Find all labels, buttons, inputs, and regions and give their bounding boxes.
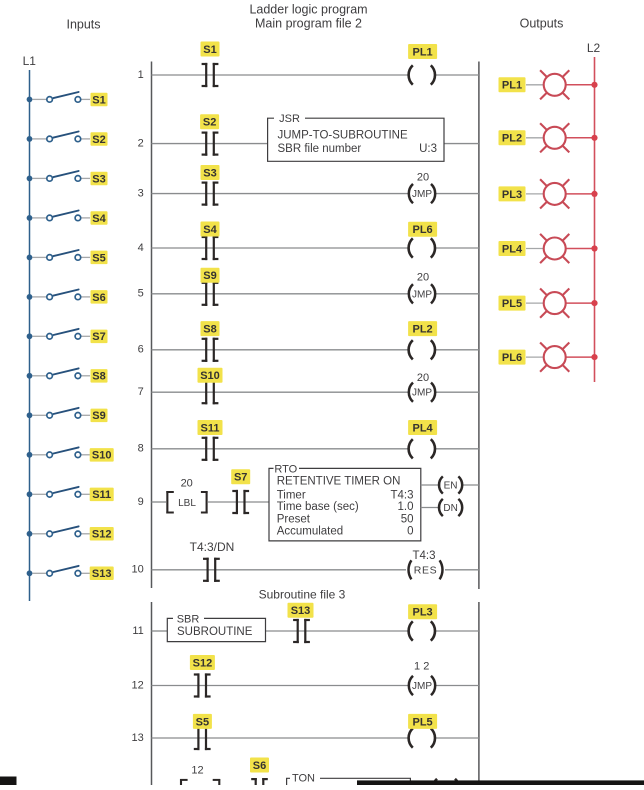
- svg-text:9: 9: [138, 496, 144, 508]
- svg-text:12: 12: [132, 679, 144, 691]
- svg-text:S9: S9: [203, 270, 216, 282]
- svg-text:PL6: PL6: [413, 224, 433, 236]
- svg-text:PL1: PL1: [502, 80, 522, 92]
- svg-text:4: 4: [138, 242, 144, 254]
- svg-text:S5: S5: [92, 252, 105, 264]
- svg-text:1 2: 1 2: [414, 661, 429, 673]
- svg-text:S12: S12: [92, 529, 112, 541]
- svg-text:S13: S13: [291, 605, 311, 617]
- svg-text:TON: TON: [292, 772, 315, 784]
- svg-text:Time base (sec): Time base (sec): [277, 501, 359, 513]
- svg-text:L1: L1: [23, 54, 37, 68]
- svg-text:Outputs: Outputs: [520, 16, 564, 30]
- svg-text:S9: S9: [92, 410, 105, 422]
- svg-text:S3: S3: [203, 167, 216, 179]
- svg-text:7: 7: [138, 386, 144, 398]
- svg-text:20: 20: [417, 171, 429, 183]
- svg-text:T4:3/DN: T4:3/DN: [190, 540, 235, 554]
- svg-text:2: 2: [138, 138, 144, 150]
- svg-text:S5: S5: [196, 716, 209, 728]
- svg-text:SUBROUTINE: SUBROUTINE: [177, 626, 253, 638]
- svg-text:JMP: JMP: [412, 189, 432, 200]
- svg-text:S8: S8: [203, 324, 216, 336]
- svg-text:S4: S4: [203, 224, 217, 236]
- svg-text:8: 8: [138, 443, 144, 455]
- svg-text:PL6: PL6: [502, 352, 522, 364]
- svg-text:JMP: JMP: [412, 388, 432, 399]
- svg-text:Accumulated: Accumulated: [277, 526, 343, 538]
- svg-text:U:3: U:3: [419, 143, 437, 155]
- svg-text:PL2: PL2: [502, 133, 522, 145]
- svg-text:PL3: PL3: [413, 607, 433, 619]
- svg-text:6: 6: [138, 344, 144, 356]
- svg-text:20: 20: [417, 272, 429, 284]
- svg-text:EN: EN: [444, 481, 458, 492]
- svg-text:S10: S10: [92, 450, 112, 462]
- svg-text:JUMP-TO-SUBROUTINE: JUMP-TO-SUBROUTINE: [278, 130, 408, 142]
- svg-text:Inputs: Inputs: [66, 17, 100, 31]
- svg-text:PL1: PL1: [413, 46, 433, 58]
- svg-text:Main program file 2: Main program file 2: [255, 16, 362, 30]
- svg-text:5: 5: [138, 288, 144, 300]
- svg-text:S2: S2: [92, 134, 105, 146]
- svg-text:RETENTIVE TIMER ON: RETENTIVE TIMER ON: [277, 475, 401, 487]
- svg-text:JMP: JMP: [412, 681, 432, 692]
- svg-text:RTO: RTO: [274, 463, 297, 475]
- svg-text:10: 10: [132, 564, 144, 576]
- svg-text:0: 0: [407, 526, 413, 538]
- svg-text:S7: S7: [92, 331, 105, 343]
- svg-text:SBR file number: SBR file number: [278, 143, 362, 155]
- svg-text:50: 50: [401, 513, 414, 525]
- svg-text:S11: S11: [201, 422, 220, 434]
- svg-text:1.0: 1.0: [398, 501, 414, 513]
- svg-text:PL5: PL5: [502, 298, 522, 310]
- svg-text:Timer: Timer: [277, 490, 306, 502]
- svg-text:13: 13: [132, 732, 144, 744]
- svg-text:PL2: PL2: [413, 324, 433, 336]
- svg-text:S6: S6: [253, 760, 266, 772]
- svg-text:3: 3: [138, 188, 144, 200]
- svg-text:S4: S4: [92, 213, 106, 225]
- svg-text:T4:3: T4:3: [412, 550, 435, 562]
- svg-text:PL4: PL4: [413, 422, 434, 434]
- svg-text:20: 20: [181, 477, 193, 489]
- svg-text:Ladder logic program: Ladder logic program: [249, 2, 367, 16]
- svg-text:JMP: JMP: [412, 289, 432, 300]
- svg-text:DN: DN: [443, 503, 457, 514]
- svg-text:RES: RES: [414, 564, 437, 576]
- svg-text:LBL: LBL: [178, 498, 196, 509]
- svg-text:PL5: PL5: [413, 716, 433, 728]
- svg-text:11: 11: [132, 625, 143, 637]
- svg-text:PL4: PL4: [502, 243, 523, 255]
- svg-text:L2: L2: [587, 41, 601, 55]
- svg-text:S11: S11: [92, 489, 111, 501]
- svg-text:S6: S6: [92, 292, 105, 304]
- svg-text:SBR: SBR: [177, 613, 200, 625]
- svg-text:S8: S8: [92, 371, 105, 383]
- svg-text:S1: S1: [203, 44, 216, 56]
- svg-text:S7: S7: [234, 472, 247, 484]
- svg-text:PL3: PL3: [502, 189, 522, 201]
- svg-text:S2: S2: [203, 117, 216, 129]
- svg-text:S3: S3: [92, 173, 105, 185]
- svg-text:1: 1: [138, 69, 144, 81]
- svg-text:S1: S1: [92, 94, 105, 106]
- svg-text:Preset: Preset: [277, 513, 311, 525]
- svg-text:Subroutine file 3: Subroutine file 3: [259, 587, 346, 601]
- svg-text:S13: S13: [92, 568, 112, 580]
- svg-text:12: 12: [191, 764, 203, 776]
- svg-text:S10: S10: [200, 370, 220, 382]
- svg-text:20: 20: [417, 372, 429, 384]
- svg-text:JSR: JSR: [279, 113, 300, 125]
- svg-text:S12: S12: [193, 657, 213, 669]
- svg-text:T4:3: T4:3: [390, 490, 413, 502]
